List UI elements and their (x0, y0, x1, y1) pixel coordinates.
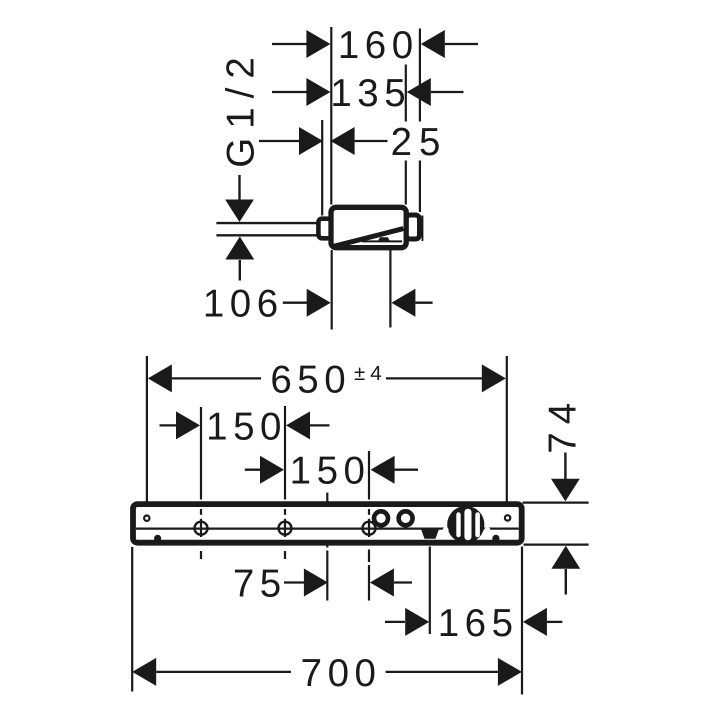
dim 106 (203, 283, 433, 326)
bar-top extension line right (523, 501, 589, 503)
valve body (331, 207, 406, 247)
svg-text:74: 74 (542, 395, 585, 454)
pipe line top (216, 222, 318, 224)
svg-text:150: 150 (290, 450, 371, 493)
74 stem upper (564, 453, 566, 480)
extension 165-left (x=429) (429, 547, 431, 635)
dim 25 (259, 121, 447, 164)
mount hole small left (144, 516, 149, 521)
valve cap end line (422, 216, 424, 242)
74 arrow down (551, 479, 580, 502)
extension below valve left (331, 250, 333, 330)
svg-text:G1/2: G1/2 (220, 48, 263, 167)
G1/2 leader stem upper (238, 175, 240, 200)
svg-text:650: 650 (270, 358, 351, 401)
extension line left-main (x=331) (330, 27, 332, 205)
svg-text:135: 135 (330, 72, 411, 115)
dim 165 (385, 602, 562, 645)
G1/2 leader stem lower (239, 260, 241, 281)
svg-text:150: 150 (206, 405, 287, 448)
valve button bump (378, 237, 391, 242)
hole circle 3 (363, 522, 376, 535)
centerline dashed (x=327) (326, 493, 328, 559)
pipe line bottom (216, 234, 318, 236)
extension 650-right (506, 356, 508, 512)
bar-bottom extension line right (524, 543, 589, 545)
mount hole small right (505, 515, 510, 520)
hole 3 centerline marks (368, 509, 370, 601)
extension bar-left (x=132) (131, 547, 133, 692)
valve inner line (362, 240, 402, 242)
screw dot right (492, 535, 499, 542)
extension line 160-right (x=420) upper (419, 29, 421, 122)
dim 75 (233, 563, 412, 606)
extension 150-left (x=201) (200, 407, 202, 500)
svg-text:25: 25 (391, 121, 448, 164)
ring knob B (399, 511, 413, 525)
dim 650 plusminus4 (148, 358, 506, 401)
shower bar outline (133, 504, 522, 543)
svg-text:165: 165 (438, 602, 519, 645)
G1/2 arrow down (225, 200, 254, 223)
extension below valve right (389, 250, 391, 328)
extension line nub-left (x=322) (321, 120, 323, 216)
valve lever diagonal (334, 229, 404, 247)
thermostat knob (443, 506, 491, 543)
bar inner shelf line (136, 527, 519, 529)
dim 135 (272, 72, 464, 115)
valve right cap (406, 215, 420, 239)
hole circle 2 (279, 522, 292, 535)
valve left nub (318, 219, 333, 239)
extension 150-right (x=369) (368, 451, 370, 500)
select button trapezoid (421, 528, 439, 538)
hole 2 centerline marks (284, 509, 286, 559)
extension bar-right (x=522) (521, 547, 523, 695)
74 stem lower (565, 569, 567, 595)
svg-text:±4: ±4 (354, 362, 387, 385)
extension line 135-right (x=406) lower (405, 161, 407, 205)
dim 160 (272, 24, 478, 67)
centerline solid lower (x=327) (326, 559, 328, 601)
G1/2 arrow up (225, 237, 254, 260)
74 arrow up (551, 546, 580, 569)
svg-text:106: 106 (203, 283, 284, 326)
hole circle 1 (195, 522, 208, 535)
extension line 135-right (x=406) upper (405, 65, 407, 122)
hole 1 centerline marks (200, 509, 202, 559)
svg-text:160: 160 (338, 24, 419, 67)
screw dot left (154, 535, 161, 542)
ring knob A (374, 511, 388, 525)
svg-text:75: 75 (233, 563, 287, 606)
dim 150 first (160, 405, 330, 448)
svg-text:700: 700 (301, 652, 382, 695)
dim 150 second (245, 450, 418, 493)
extension 650-left (146, 356, 148, 512)
extension 150-mid (x=285) (284, 406, 286, 500)
dim 700 (132, 652, 522, 695)
extension line 160-right (x=420) lower (419, 161, 421, 213)
